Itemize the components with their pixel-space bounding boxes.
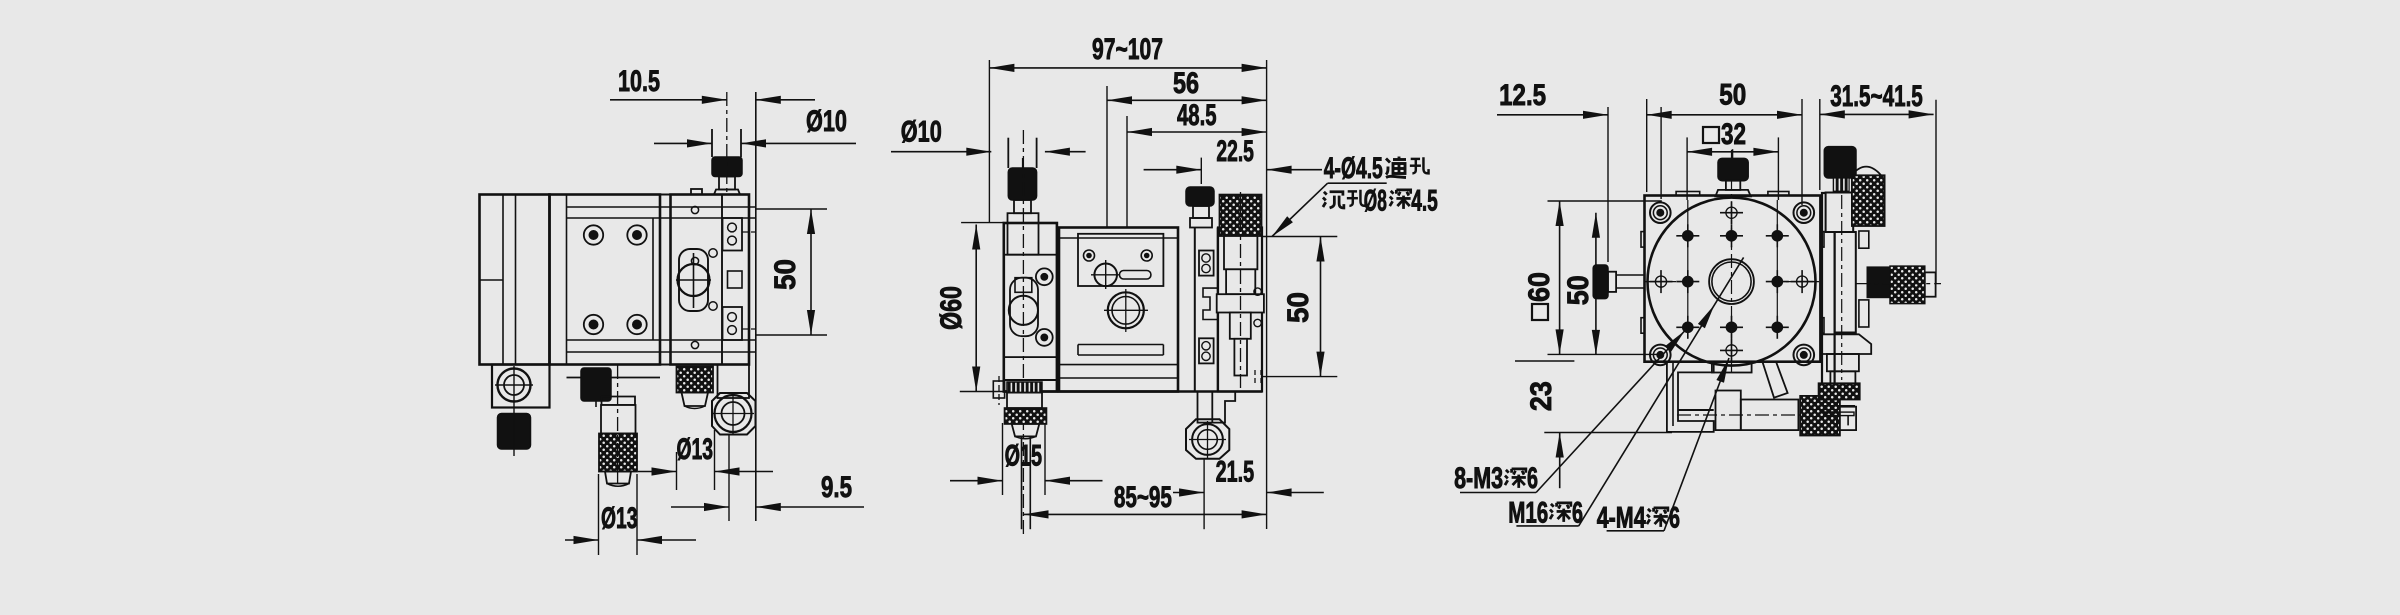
view1 bottom shelf [567, 377, 661, 379]
view2 main circle [1108, 292, 1144, 328]
svg-text:97~107: 97~107 [1092, 33, 1163, 66]
svg-text:6: 6 [1572, 497, 1583, 530]
view2 bottom left micrometer barrel [1007, 393, 1042, 409]
view2 left column bottom line [1004, 379, 1057, 381]
view3 Y micrometer barrel [1741, 400, 1799, 431]
view3 grid column lines [1687, 200, 1689, 333]
view2 micrometer centerline [1240, 192, 1242, 390]
view1 panel screws [691, 206, 698, 213]
dimension 97~107 line [989, 67, 1266, 69]
view2 micrometer barrel2 [1226, 269, 1255, 294]
view3 corner screw BL [1650, 345, 1671, 366]
view2 top small knob [1186, 187, 1214, 206]
svg-text:4-Ø4.5: 4-Ø4.5 [1324, 152, 1383, 185]
view3 rail mid tabs [1859, 231, 1869, 248]
label M16 leader [1579, 257, 1744, 526]
dimension 21.5 line [1173, 492, 1204, 494]
dimension view2 O10 line [891, 151, 991, 153]
dimension 9.5 line [671, 506, 729, 508]
view2 subplate [1078, 234, 1163, 286]
view3 Y micrometer clamp block [1716, 391, 1741, 431]
dimension 31.5~41.5 line [1820, 113, 1934, 115]
dimension square60 symbol [1532, 304, 1548, 320]
label 8-M3 leader [1536, 331, 1685, 493]
view2 micrometer knurl top [1220, 195, 1262, 236]
view2 left clamp circle [1009, 296, 1038, 325]
view1 right column edge [721, 195, 723, 365]
view2 subplate screw right [1141, 250, 1152, 261]
svg-text:50: 50 [769, 259, 802, 290]
view1 plate socket screw top-right [627, 225, 646, 244]
view2 left bracket top tab [1015, 278, 1032, 293]
dimension 12.5+50 lines [1497, 114, 1608, 116]
dimension view1 O13 mid line [676, 452, 678, 490]
view1 adjuster cross screw [679, 249, 708, 311]
svg-text:Ø8: Ø8 [1364, 185, 1387, 218]
view2 left knob [1008, 168, 1036, 200]
svg-text:Ø15: Ø15 [1005, 440, 1043, 473]
svg-text:4.5: 4.5 [1411, 185, 1438, 218]
view3 X micrometer black knob [1867, 267, 1890, 298]
dimension view3 60 ext [1548, 200, 1662, 202]
view3 rail bottom tip [1827, 412, 1854, 416]
view1 bottom right strip [718, 365, 750, 399]
dimension 48.5 line [1127, 131, 1267, 133]
dimension view3 60 line [1559, 201, 1561, 354]
view2 subplate screw left [1084, 250, 1095, 261]
view3 corner screw BR [1794, 345, 1815, 366]
view3 bracket under square [1667, 362, 1714, 432]
svg-text:50: 50 [1562, 275, 1595, 305]
view1 body top tab [691, 189, 702, 195]
view3 left edge tabs [1641, 232, 1645, 248]
view2 bottom left micrometer stem [1021, 436, 1023, 529]
svg-text:Ø60: Ø60 [935, 286, 968, 330]
label leader underline [1328, 182, 1387, 184]
view2 middle column [1177, 228, 1179, 392]
dimension 97~107 right ext long [1266, 60, 1268, 529]
view2 bottom left micrometer knurl [1005, 408, 1047, 424]
view3 top knob [1718, 158, 1748, 180]
view1 right plate line [755, 92, 757, 521]
view1 main plate [550, 195, 661, 365]
view3 horizontal centerline stubs [1645, 281, 1676, 283]
view2 left bracket plate [1004, 255, 1057, 357]
view1 top knob [712, 157, 742, 177]
view1 bottom-left lock screw [498, 369, 531, 402]
view3 rail bottom white block [1840, 407, 1856, 430]
view1 mid panel [671, 195, 750, 365]
view3 M4 edge hole top [1726, 207, 1737, 218]
view2 micrometer screws [1254, 288, 1261, 295]
view3 corner screw TR [1794, 202, 1815, 223]
view1 micrometer tip [605, 472, 631, 484]
svg-text:23: 23 [1525, 381, 1558, 411]
view1 top knob centerline [726, 92, 728, 194]
view2 micrometer stem [1230, 313, 1251, 339]
dimension square32 symbol [1703, 127, 1719, 143]
dimension view1 50 extension lines [756, 208, 827, 210]
view3 center vertical centerline [1731, 150, 1733, 372]
svg-text:21.5: 21.5 [1216, 456, 1255, 489]
svg-text:Ø13: Ø13 [677, 433, 714, 466]
view1 hidden dash marks [742, 231, 756, 233]
dimension O60 line [975, 225, 977, 392]
dimension O15 line [950, 480, 1003, 482]
label 8-M3 underline [1460, 492, 1536, 494]
view1 plate socket screw top-left [584, 225, 603, 244]
view3 M16 center hole [1709, 259, 1754, 304]
dimension 32 line [1687, 151, 1778, 153]
dimension view3 50v line [1595, 213, 1597, 355]
view1 micrometer centerline [617, 365, 619, 487]
label 4-M4 leader [1664, 358, 1729, 531]
view3 top edge tabs [1676, 192, 1700, 196]
view2 micrometer stem2 [1234, 339, 1247, 376]
dimension 22.5 ext [1200, 158, 1202, 184]
view3 bottom diagonal strut [1762, 362, 1787, 398]
dimension view1 O10 line [654, 142, 712, 144]
svg-text:Ø10: Ø10 [901, 116, 942, 149]
view2 bottom left micrometer sleeve [1007, 382, 1042, 393]
view2 left bracket stadium [1010, 278, 1038, 337]
view2 micrometer dash marks [1254, 370, 1256, 385]
view3 rail top black knob [1824, 147, 1856, 178]
dimension O15 ext [1002, 423, 1004, 495]
view3 M3 grid holes [1683, 231, 1693, 241]
view2 bottom right strip [1198, 392, 1213, 423]
view3 X micrometer tip [1925, 272, 1936, 296]
view2 right slide column [1217, 228, 1219, 392]
dimension view3 50 ext [1646, 99, 1648, 192]
view3 M4 edge hole bottom [1726, 345, 1737, 356]
view1 plate socket screw bottom-left [584, 315, 603, 334]
view2 top small knob collar [1190, 218, 1212, 228]
view1 top knob flange [714, 190, 740, 195]
view1 bottom mid knob [581, 368, 611, 401]
dimension 9.5 ext [728, 434, 730, 521]
view3 X micrometer knurl [1890, 266, 1925, 304]
svg-text:6: 6 [1669, 502, 1680, 535]
svg-text:31.5~41.5: 31.5~41.5 [1830, 80, 1923, 113]
view1 right column notch [728, 271, 743, 288]
view2 subplate slot [1120, 271, 1151, 280]
svg-text:50: 50 [1282, 292, 1315, 323]
view2 left column [1004, 223, 1057, 392]
view3 main circle [1648, 198, 1816, 366]
view2 left bracket screw bottom [1036, 329, 1053, 346]
view1 stage left block [480, 195, 550, 365]
view3 M4 edge hole left [1655, 276, 1666, 287]
view1 micrometer barrel [601, 405, 636, 434]
view3 left knob stem [1608, 272, 1616, 292]
dimension 31.5~41.5 right ext [1935, 100, 1937, 284]
view3 top knob neck [1726, 181, 1740, 190]
view2 slide step notch [1203, 288, 1218, 319]
dimension 56 ext [1106, 86, 1108, 228]
dimension O60 bottom ext [960, 391, 1004, 393]
view1 plate socket screw bottom-right [627, 315, 646, 334]
view2 bottom right octagon knob [1186, 419, 1229, 458]
dimension 21.5 ext [1203, 459, 1205, 530]
svg-text:6: 6 [1527, 462, 1538, 495]
view3 rail bottom tabs [1824, 406, 1855, 412]
svg-text:8-M3: 8-M3 [1454, 462, 1503, 495]
view3 rail top knob stripes [1833, 178, 1849, 191]
view1 micrometer collar [602, 397, 636, 406]
view1 top knob neck [719, 177, 735, 190]
view1 right column hole block bottom [723, 307, 743, 340]
view2 top small knob neck [1193, 206, 1209, 218]
svg-text:85~95: 85~95 [1114, 481, 1172, 514]
label M16 underline [1516, 525, 1578, 527]
dimension view2 50 line [1320, 237, 1322, 377]
view3 rail bottom knurl [1819, 383, 1860, 399]
view1 micrometer knurl [599, 434, 637, 472]
view3 Y micrometer knurl [1800, 396, 1840, 436]
view2 subplate cross screw [1094, 264, 1117, 287]
dimension view2 50 ext [1261, 236, 1337, 238]
dimension 23 arrow [1559, 433, 1561, 489]
dimension 56 line [1107, 99, 1267, 101]
dimension view1 O13 bottom ext [598, 474, 600, 555]
view2 slide hole block top [1199, 251, 1214, 276]
view2 right column body [1218, 228, 1262, 392]
view3 right edge tabs [1820, 232, 1824, 248]
dimension 12.5 ext [1607, 107, 1609, 262]
view2 slide hole block bottom [1199, 338, 1214, 363]
view2 main plate [1059, 228, 1178, 392]
view1 right knurled knob [677, 367, 714, 393]
svg-text:50: 50 [1719, 79, 1746, 112]
view2 bottom left micrometer tip [1012, 424, 1040, 437]
view2 left knob collar [1008, 213, 1039, 255]
view3 rail [1822, 193, 1835, 386]
view2 left knob neck [1014, 200, 1031, 213]
view3 square body [1645, 196, 1821, 362]
view3 rail bottom barrel [1827, 354, 1859, 371]
view2 bottom left lever [993, 381, 1004, 398]
svg-text:60: 60 [1523, 272, 1556, 302]
svg-text:M16: M16 [1508, 497, 1548, 530]
view3 X micrometer centerline [1856, 283, 1941, 285]
view1 top knob shaft [711, 129, 713, 157]
svg-text:4-M4: 4-M4 [1597, 502, 1646, 535]
view3 left knob [1593, 265, 1608, 299]
view1 right knob tip [682, 393, 709, 407]
label leader line [1272, 183, 1328, 236]
view1 bottom right octagon knob [712, 393, 756, 435]
view2 body bottom [1004, 390, 1262, 393]
view1 bottom-left knob [498, 414, 531, 450]
dimension O60 ext [961, 222, 1004, 224]
view2 micrometer flange [1217, 294, 1264, 312]
dimension view1 50 line [810, 209, 812, 335]
svg-text:22.5: 22.5 [1216, 135, 1254, 168]
dimension 22.5 line [1144, 169, 1202, 171]
dimension 97~107 ext left [988, 60, 990, 222]
view3 top knob flange [1715, 190, 1750, 197]
view3 top right dome knurl [1852, 167, 1882, 176]
svg-text:Ø10: Ø10 [806, 105, 847, 138]
view2 left centerline [1022, 130, 1024, 534]
label 4-M4 underline [1607, 530, 1664, 532]
view3 rail bottom bracket [1820, 334, 1872, 354]
view3 bottom tab [1712, 362, 1752, 373]
view2 left bracket screw top [1036, 268, 1053, 285]
view3 M4 edge hole right [1797, 276, 1808, 287]
dimension 85~95 line [1024, 513, 1267, 515]
view1 right column hole block top [723, 218, 743, 251]
view2 left knob shaft [1007, 138, 1009, 168]
view3 top knob stub [1732, 149, 1734, 158]
view1 carriage strip [660, 195, 671, 365]
svg-text:9.5: 9.5 [821, 471, 852, 504]
view2 plate lower steps [1078, 344, 1163, 346]
svg-text:Ø13: Ø13 [601, 502, 638, 535]
dimension 32 ext [1686, 137, 1688, 200]
view3 Y micrometer centerline [1677, 414, 1800, 416]
svg-text:56: 56 [1173, 67, 1199, 100]
svg-text:32: 32 [1721, 118, 1746, 151]
view1 bottom-left bracket [492, 365, 550, 408]
dimension 23 refs [1515, 360, 1574, 362]
dimension view1 O13 bottom line [565, 539, 599, 541]
view3 corner screw TL [1650, 202, 1671, 223]
svg-text:10.5: 10.5 [618, 65, 660, 98]
svg-text:48.5: 48.5 [1177, 99, 1217, 132]
svg-text:12.5: 12.5 [1499, 79, 1546, 112]
view2 micrometer barrel [1224, 236, 1257, 269]
label 4-O4.5 counterbore text line2 [1323, 192, 1344, 208]
view3 rail plate [1835, 232, 1856, 333]
dimension 10.5 line [610, 99, 727, 101]
dimension 48.5 ext [1126, 116, 1128, 228]
view2 bottom right L bracket [1212, 392, 1235, 423]
